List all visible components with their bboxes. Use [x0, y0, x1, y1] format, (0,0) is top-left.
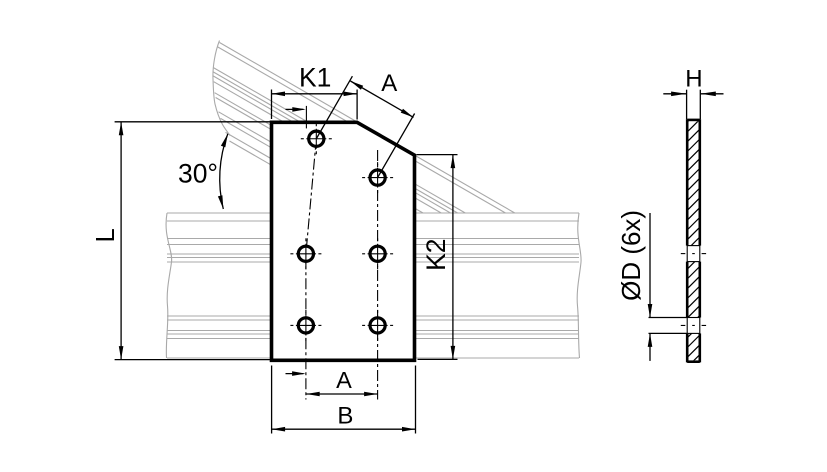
- side view hole edges: [681, 246, 706, 334]
- horizontal profile (gray extrusion behind plate): [166, 213, 581, 358]
- hole upper-right: [362, 162, 393, 193]
- dimension B: [272, 366, 416, 434]
- hole mid-left: [290, 238, 321, 269]
- centerline left hole column: [306, 106, 378, 400]
- dimension K1: [271, 90, 273, 120]
- svg-text:B: B: [337, 403, 353, 430]
- mounting plate outline: [272, 122, 415, 360]
- hole top-left: [301, 123, 332, 154]
- dimension L: [115, 122, 272, 360]
- svg-text:ØD (6x): ØD (6x): [616, 210, 646, 301]
- leader arrow to hole column, top: [286, 108, 304, 110]
- svg-text:A: A: [336, 367, 352, 393]
- svg-text:L: L: [92, 228, 120, 242]
- svg-text:A: A: [381, 70, 397, 97]
- svg-text:K2: K2: [421, 238, 451, 270]
- centerline right hole column: [377, 150, 379, 400]
- dimension A bottom: [306, 393, 377, 395]
- dimension K2: [417, 155, 458, 360]
- dimension H: [663, 90, 723, 120]
- svg-text:H: H: [685, 66, 702, 93]
- svg-text:K1: K1: [299, 62, 331, 92]
- leader arrow to hole column, bottom: [286, 373, 304, 375]
- hole mid-right: [362, 238, 393, 269]
- 30 degree angle arc: [220, 134, 228, 209]
- hole bottom-right: [362, 310, 393, 341]
- side view outline: [687, 119, 700, 362]
- angled profile (gray extrusion at 30 deg): [213, 41, 515, 214]
- svg-text:30°: 30°: [178, 158, 218, 188]
- hole bottom-left: [290, 310, 321, 341]
- dimension A top (angled): [316, 76, 414, 177]
- dimension diameter D (6x): [649, 213, 688, 361]
